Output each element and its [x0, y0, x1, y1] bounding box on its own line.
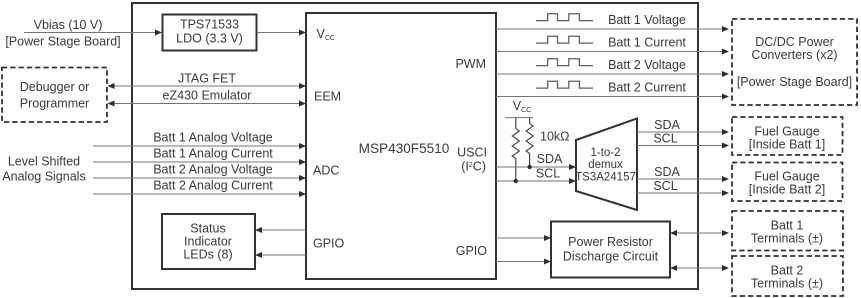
- svg-text:LDO (3.3 V): LDO (3.3 V): [176, 32, 243, 46]
- svg-text:JTAG FET: JTAG FET: [178, 72, 236, 86]
- svg-text:Discharge Circuit: Discharge Circuit: [563, 250, 659, 264]
- svg-text:Power Resistor: Power Resistor: [568, 235, 653, 249]
- svg-text:eZ430 Emulator: eZ430 Emulator: [163, 89, 252, 103]
- wire LDO output to Vcc pin: [257, 30, 306, 36]
- svg-text:Batt 2: Batt 2: [771, 264, 804, 278]
- svg-text:Batt 1 Analog Current: Batt 1 Analog Current: [153, 147, 273, 161]
- wire PWM Batt 1 Voltage: [496, 13, 729, 32]
- svg-text:Converters (x2): Converters (x2): [751, 48, 837, 62]
- svg-text:10kΩ: 10kΩ: [540, 130, 570, 144]
- svg-text:SDA: SDA: [654, 118, 680, 132]
- svg-text:Debugger or: Debugger or: [20, 80, 90, 94]
- svg-text:LEDs (8): LEDs (8): [183, 248, 232, 262]
- wire SDA to fuel gauge 1: [637, 118, 729, 135]
- svg-text:Analog Signals: Analog Signals: [2, 170, 85, 184]
- fuel gauge 2 box: [732, 163, 843, 202]
- svg-text:TPS71533: TPS71533: [180, 18, 239, 32]
- svg-text:DC/DC Power: DC/DC Power: [755, 35, 834, 49]
- svg-text:SCL: SCL: [536, 167, 560, 181]
- svg-text:Batt 1 Current: Batt 1 Current: [608, 36, 686, 50]
- label 10k ohm: [540, 130, 570, 144]
- svg-text:SCL: SCL: [653, 132, 677, 146]
- regulator U1 TPS71533 LDO: [163, 15, 257, 51]
- wire discharge to batt 1 terminals: [670, 230, 729, 236]
- svg-text:Batt 2 Voltage: Batt 2 Voltage: [608, 58, 686, 72]
- fuel gauge 1 box: [732, 117, 843, 155]
- wire Batt 2 Analog Voltage: [93, 163, 306, 182]
- svg-text:Batt 1 Analog Voltage: Batt 1 Analog Voltage: [153, 131, 273, 145]
- svg-text:Batt 1 Voltage: Batt 1 Voltage: [608, 13, 686, 27]
- wire PWM Batt 1 Current: [496, 36, 729, 55]
- svg-text:Fuel Gauge: Fuel Gauge: [754, 125, 819, 139]
- svg-text:GPIO: GPIO: [313, 237, 345, 251]
- status indicator LEDs box: [162, 214, 255, 269]
- wire SDA to fuel gauge 2: [637, 165, 729, 182]
- svg-text:SDA: SDA: [537, 152, 563, 166]
- svg-text:SDA: SDA: [654, 165, 680, 179]
- DC/DC converters box: [732, 19, 857, 105]
- svg-text:[Inside Batt 2]: [Inside Batt 2]: [749, 183, 825, 197]
- wire SCL to fuel gauge 2: [637, 179, 729, 196]
- svg-text:demux: demux: [588, 159, 623, 171]
- svg-text:VCC: VCC: [513, 99, 531, 114]
- wire eZ430 Emulator: [108, 89, 307, 107]
- junction SDA node: [527, 165, 531, 169]
- wire JTAG FET: [108, 72, 307, 90]
- demux U3 TS3A24157: [575, 119, 637, 211]
- junction SCL node: [514, 179, 518, 183]
- svg-text:Indicator: Indicator: [184, 235, 232, 249]
- svg-text:Fuel Gauge: Fuel Gauge: [754, 170, 819, 184]
- svg-text:Status: Status: [190, 222, 225, 236]
- MCU U2 MSP430F5510: [306, 13, 496, 279]
- svg-text:1-to-2: 1-to-2: [590, 147, 620, 159]
- wire PWM Batt 2 Voltage: [496, 58, 729, 77]
- wire GPIO to status LEDs 1: [255, 227, 306, 233]
- svg-text:PWM: PWM: [455, 57, 486, 71]
- resistor R2 10k (to SDA): [526, 118, 533, 168]
- debugger box: [2, 68, 107, 123]
- wire SCL to fuel gauge 1: [637, 132, 729, 149]
- outer board box: [132, 3, 698, 289]
- svg-text:[Power Stage Board]: [Power Stage Board]: [5, 35, 120, 49]
- node Vbias label: [5, 18, 120, 49]
- svg-text:Batt 1: Batt 1: [771, 219, 804, 233]
- svg-text:[Inside Batt 1]: [Inside Batt 1]: [749, 138, 825, 152]
- wire discharge to batt 2 terminals: [670, 265, 729, 271]
- wire GPIO to status LEDs 2: [255, 252, 306, 258]
- svg-text:Batt 2 Current: Batt 2 Current: [608, 81, 686, 95]
- svg-text:Programmer: Programmer: [20, 97, 89, 111]
- wire SCL to demux: [496, 167, 576, 185]
- svg-text:USCI: USCI: [457, 146, 487, 160]
- svg-text:Batt 2 Analog Voltage: Batt 2 Analog Voltage: [153, 163, 273, 177]
- svg-text:[Power Stage Board]: [Power Stage Board]: [737, 75, 852, 89]
- power Vcc rail: [505, 99, 533, 118]
- batt 1 terminals box: [732, 211, 843, 251]
- wire Batt 1 Analog Current: [93, 147, 306, 166]
- svg-text:GPIO: GPIO: [456, 244, 488, 258]
- resistor R1 10k (to SCL): [512, 118, 519, 182]
- svg-text:ADC: ADC: [313, 164, 339, 178]
- wire Vbias to LDO input: [24, 30, 162, 36]
- svg-text:EEM: EEM: [314, 89, 341, 103]
- svg-text:Terminals (±): Terminals (±): [751, 277, 823, 291]
- node Level Shifted Analog Signals label: [2, 155, 85, 184]
- wire GPIO to discharge circuit 2: [496, 259, 551, 265]
- svg-text:Level Shifted: Level Shifted: [8, 155, 80, 169]
- batt 2 terminals box: [732, 256, 843, 296]
- svg-text:Batt 2 Analog Current: Batt 2 Analog Current: [153, 179, 273, 193]
- svg-text:TS3A24157: TS3A24157: [575, 172, 636, 184]
- svg-text:Terminals (±): Terminals (±): [751, 232, 823, 246]
- power resistor discharge circuit box: [551, 222, 670, 278]
- svg-text:(I2C): (I2C): [461, 160, 486, 174]
- svg-text:Vbias (10 V): Vbias (10 V): [34, 18, 103, 32]
- wire PWM Batt 2 Current: [496, 81, 729, 100]
- wire SDA to demux: [496, 152, 576, 170]
- wire GPIO to discharge circuit 1: [496, 235, 551, 241]
- wire Batt 2 Analog Current: [93, 179, 306, 198]
- wire Batt 1 Analog Voltage: [93, 131, 306, 150]
- svg-text:MSP430F5510: MSP430F5510: [359, 141, 450, 156]
- svg-text:SCL: SCL: [653, 179, 677, 193]
